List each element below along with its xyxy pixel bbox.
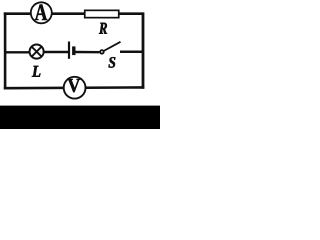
- wire: battery to switch: [76, 51, 100, 54]
- label S: [108, 57, 115, 68]
- switch S: pivot circle: [100, 50, 104, 54]
- switch S: open blade: [104, 42, 121, 51]
- black bar at bottom of scan: [0, 106, 160, 129]
- wire: left side of loop: [4, 12, 7, 89]
- ammeter letter A: [35, 5, 47, 20]
- wire: bottom side of loop: [4, 86, 145, 89]
- resistor R (box): [85, 10, 119, 17]
- battery: short thick plate (negative): [72, 46, 75, 55]
- voltmeter V (circle): [64, 77, 86, 99]
- wire: lamp to battery: [45, 51, 69, 53]
- wire: right side of loop: [142, 12, 145, 88]
- wire: middle branch, left segment to lamp: [5, 51, 30, 53]
- wire: switch to right side: [120, 50, 143, 53]
- label R: [99, 23, 107, 34]
- wire: top side of loop: [4, 12, 143, 15]
- voltmeter letter V: [68, 79, 81, 92]
- ammeter A (circle): [31, 2, 52, 23]
- lamp L (circle with X): [30, 45, 44, 59]
- battery: long plate (positive): [68, 42, 70, 59]
- label L: [32, 66, 40, 77]
